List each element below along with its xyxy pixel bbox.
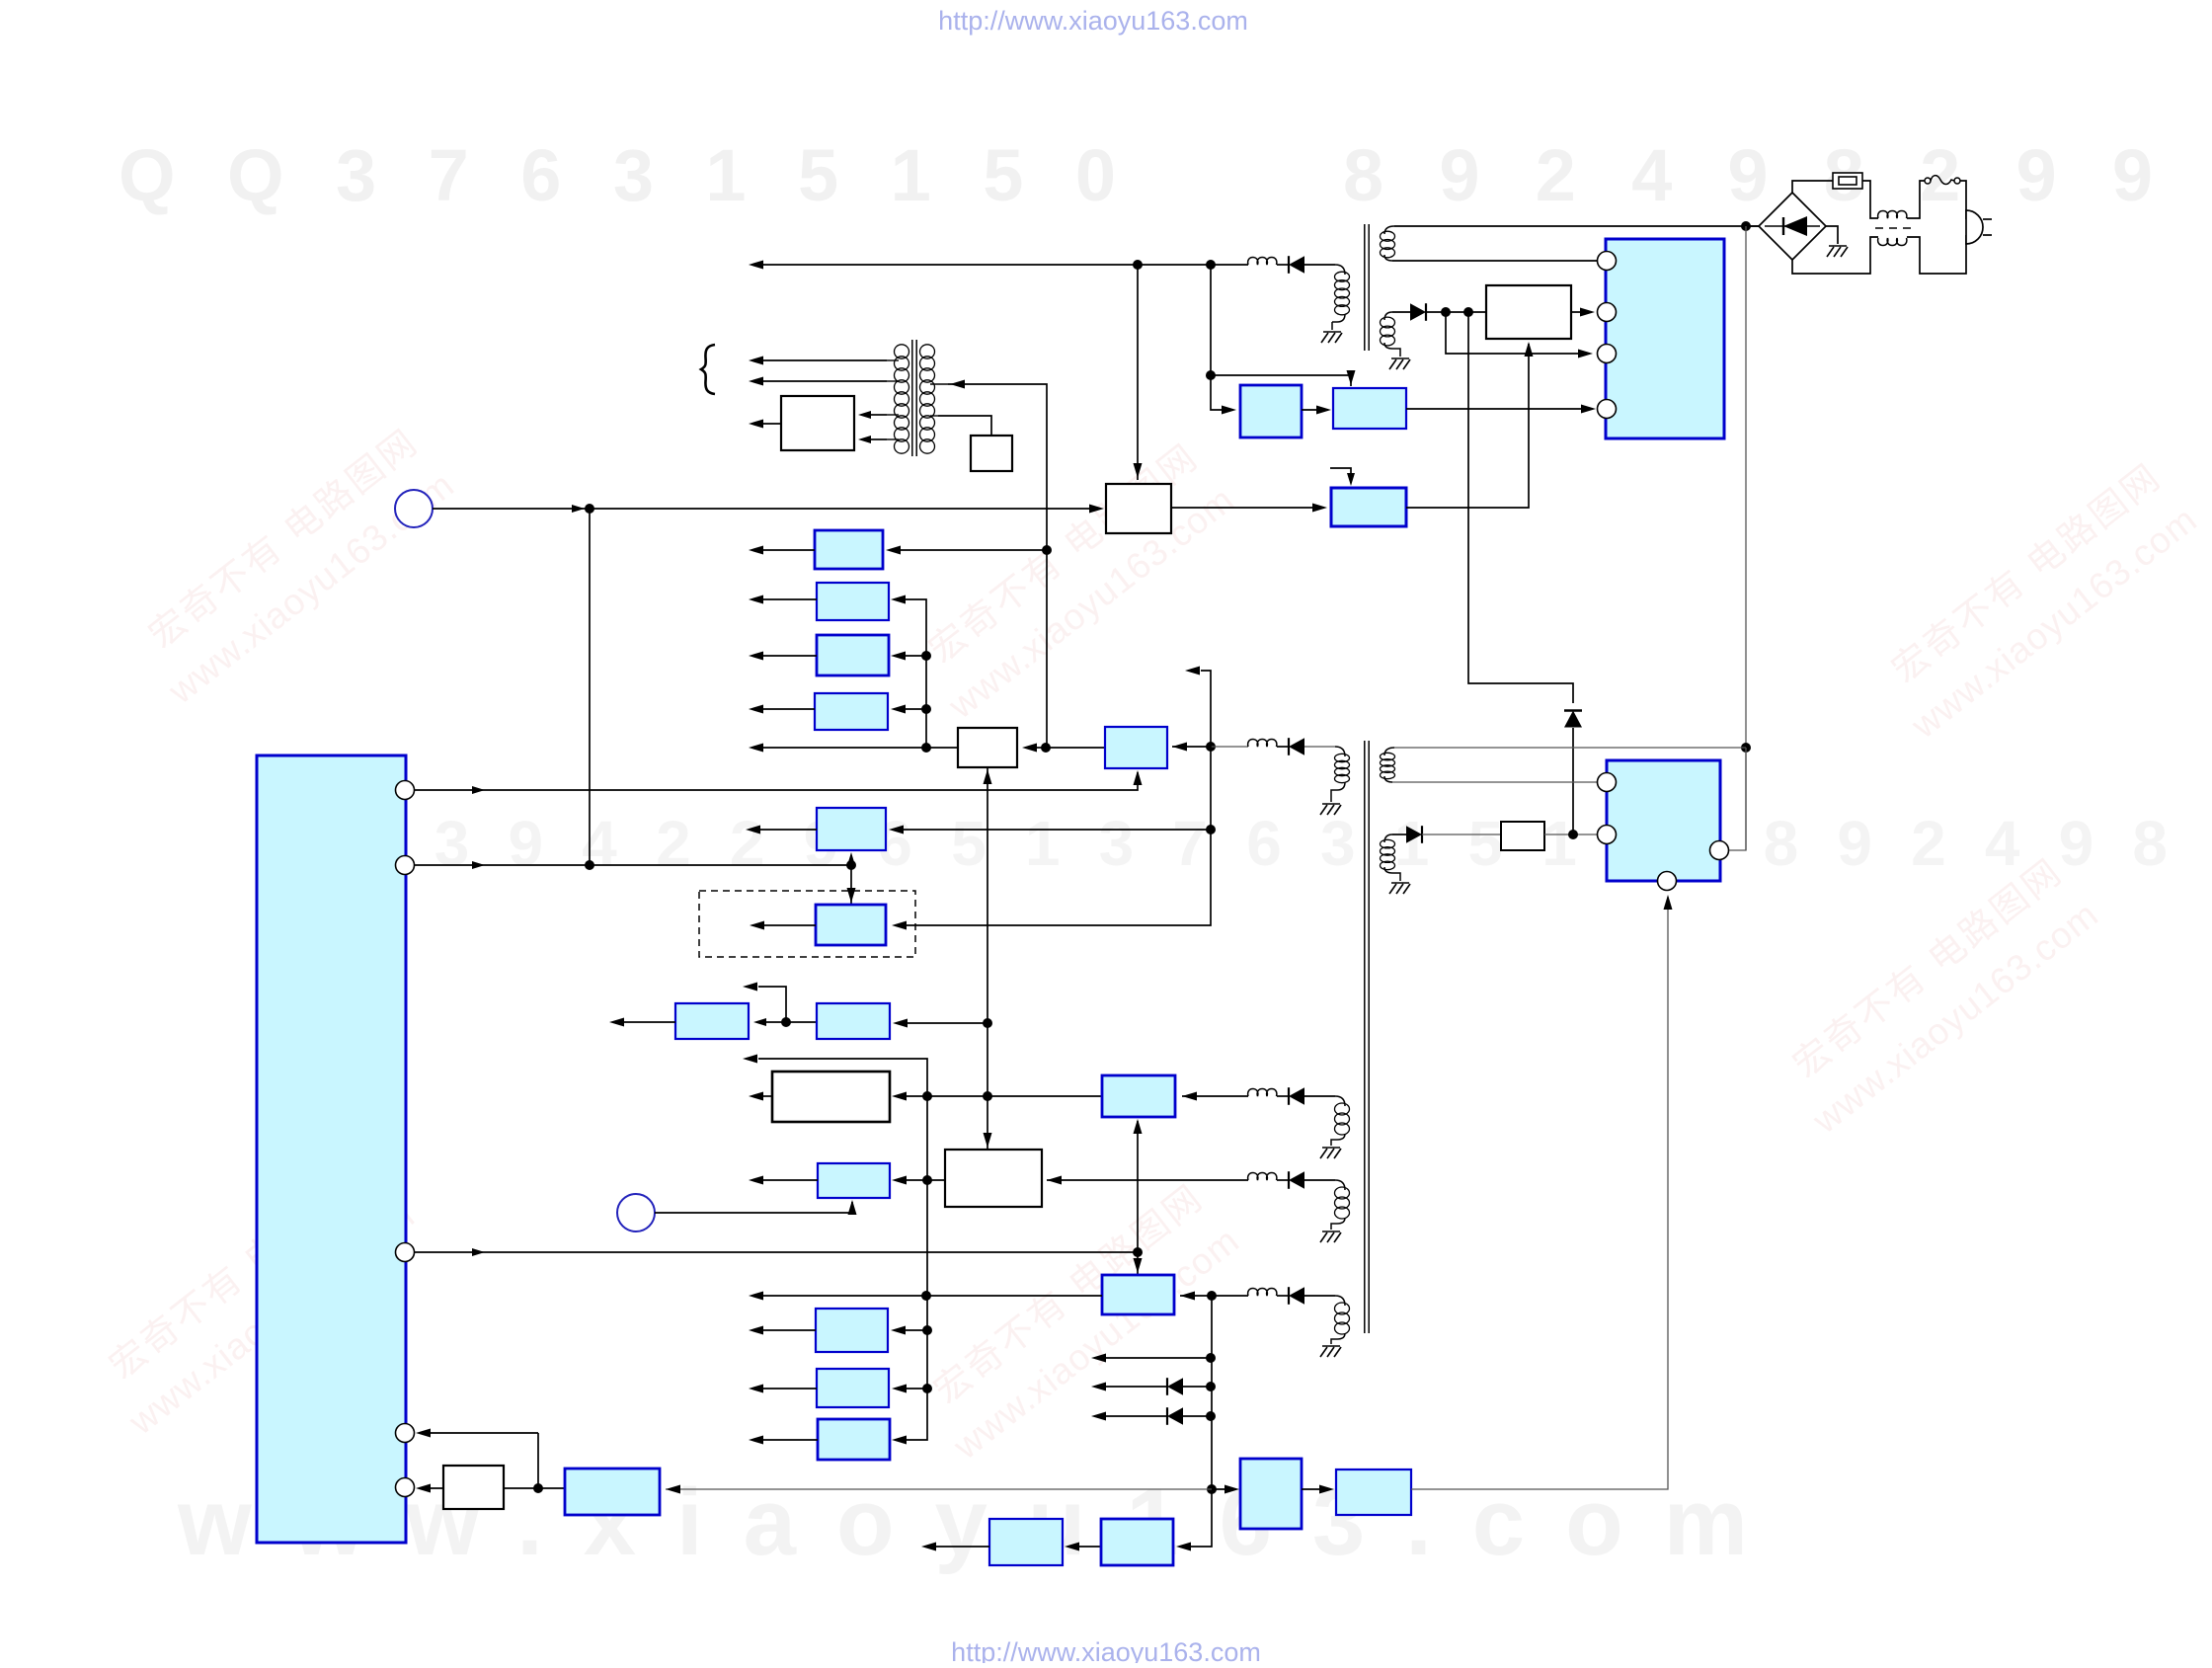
arrow stub tip (y999) — [743, 983, 757, 992]
arrow into B3 — [891, 652, 906, 661]
wire Wb out y514 — [1171, 507, 1324, 509]
wire B1 output left — [763, 549, 815, 551]
arrow into T3 coil tap — [950, 380, 965, 389]
T1 sec2 winding — [1381, 312, 1401, 357]
arrow on p1 wire — [472, 786, 485, 794]
arrow out F2 — [749, 1385, 763, 1393]
wire bridge to ground — [1826, 226, 1838, 244]
wire D4 to T2 — [1304, 746, 1335, 748]
arrow out B7 — [750, 921, 764, 930]
wire L2-D4 — [1277, 746, 1289, 748]
wire F3 out — [763, 1439, 818, 1441]
diode D9 row1404 — [1167, 1378, 1183, 1395]
wire B6 out — [760, 829, 817, 831]
arrow into D4blk — [1319, 1485, 1334, 1494]
wire row y757 left segment — [763, 747, 958, 749]
wire dot840 to B6 — [904, 829, 1211, 831]
standby reg BlockB — [1333, 388, 1406, 429]
arrow into F3 — [892, 1436, 907, 1445]
junction dot (939,1195) — [922, 1175, 932, 1185]
wire row A — [1182, 1095, 1335, 1097]
wire stub up to B6 — [850, 855, 852, 865]
arrow into W6 b — [858, 436, 871, 443]
arrow into B4 — [891, 705, 906, 714]
watermark bottom www — [177, 1469, 1748, 1575]
arrow into U1 p5 — [416, 1484, 431, 1493]
arrow out row268 — [749, 261, 763, 270]
wire row y268 — [763, 264, 1248, 266]
watermark digits row2 — [360, 808, 2168, 879]
T2 sec1 top corner — [1384, 748, 1394, 755]
arrow into F2 — [892, 1385, 907, 1393]
arrow into B6 — [889, 826, 904, 834]
audio out D3blk — [989, 1519, 1063, 1565]
wire U3 p3 to x1768 — [1729, 748, 1746, 850]
T1 primary wire-in corner — [1335, 265, 1345, 275]
fuse F1 — [1833, 173, 1862, 189]
arrow into B7 top — [847, 888, 856, 903]
arrow into reg B5 bottom — [1134, 770, 1143, 785]
wire choke bottom to plug — [1907, 235, 1966, 274]
wire row B — [1047, 1179, 1335, 1181]
wire x1152 to Wb top — [1137, 265, 1139, 480]
arrow into B7 — [892, 921, 907, 930]
junction dot (1226,756) — [1206, 742, 1216, 752]
transformer T3 left winding — [887, 345, 909, 453]
regulator B5 — [1105, 727, 1167, 768]
resistor box R1 — [1501, 822, 1544, 850]
U3 pin circle p2 — [1598, 826, 1617, 844]
watermark diagonal pink — [141, 421, 461, 712]
svg-text:http://www.xiaoyu163.com: http://www.xiaoyu163.com — [951, 1637, 1261, 1663]
arrow into BlockB top — [1347, 370, 1356, 385]
wire T1 top line y229 — [1394, 225, 1759, 227]
ground T2 sec5 — [1320, 1346, 1341, 1357]
wire row1110 — [907, 1095, 1102, 1097]
arrow into U2 pin3 — [1578, 350, 1593, 358]
arrow into Wb top — [1134, 463, 1143, 478]
arrow row1434 — [1091, 1412, 1106, 1421]
T1 sec1 top corner — [1384, 226, 1394, 234]
junction dot (1226,380) — [1206, 370, 1216, 380]
wire B3 input — [906, 655, 926, 657]
inductor L5 row C — [1248, 1289, 1277, 1297]
bridge rectifier BR1 diamond — [1759, 193, 1826, 260]
wire T3 out1 (y365) — [763, 359, 887, 361]
vertical reg D1blk — [1240, 1459, 1302, 1529]
wire BlockA-BlockB — [1302, 409, 1328, 411]
wire dot to E1 — [538, 1487, 565, 1489]
junction dot (939,1406) — [922, 1384, 932, 1393]
U1 pin circle p2 — [396, 856, 415, 875]
ground T2 sec3 — [1320, 1148, 1341, 1158]
wire T1 sec2 out — [1392, 311, 1410, 313]
diode D4 row756 — [1289, 738, 1304, 755]
junction dot (938,718) — [921, 704, 931, 714]
T2 sec2 winding — [1381, 834, 1401, 881]
regulator E1 — [565, 1469, 660, 1515]
U1 pin circle p3 — [396, 1243, 415, 1262]
wire T3 tap to W6 a — [871, 414, 887, 416]
diode D7 row B — [1289, 1171, 1304, 1189]
arrow into BlockB — [1316, 406, 1331, 415]
wire J2 to H1 bottom — [655, 1202, 852, 1213]
wire T3 right tap to W7 — [938, 416, 991, 436]
wire row1404 — [1106, 1386, 1211, 1388]
arrow on p2 wire — [472, 861, 485, 869]
regulator C1 — [1102, 1075, 1175, 1117]
watermark digits row1 left — [118, 134, 1116, 216]
wire D4blk to U3 bottom — [1411, 897, 1668, 1489]
junction dot (1152,1268) — [1133, 1247, 1143, 1257]
wire D5 to R1 — [1422, 834, 1501, 835]
U3 pin circle p1 — [1598, 773, 1617, 792]
wire D2blk to D3blk — [1079, 1546, 1101, 1548]
wire T2 sec1 lower to U3 pin1 — [1392, 781, 1598, 783]
inductor L1 row268 — [1248, 258, 1277, 266]
junction dot (1226,1434) — [1206, 1411, 1216, 1421]
photocoupler block8 — [1331, 488, 1406, 526]
wire L1-D1 — [1277, 264, 1289, 266]
wire stub down to B7 — [850, 865, 852, 905]
wire W3 to dot — [504, 1487, 538, 1489]
wire J1 to regulator input (y515) — [433, 508, 1099, 510]
audio amp D2blk — [1101, 1519, 1173, 1565]
wire F1 out — [763, 1329, 816, 1331]
wire G2 input — [765, 1021, 817, 1023]
wire into W2b right — [1037, 747, 1046, 749]
switch S1 — [1925, 176, 1960, 185]
wire to BlockB top — [1211, 375, 1351, 386]
AV switch box W5 — [945, 1150, 1042, 1207]
arrow out W4 — [749, 1092, 763, 1101]
connector J1 (blue circle) — [395, 490, 433, 527]
ground T2 sec2 — [1389, 883, 1410, 894]
wire row1195 W5 to H1 — [907, 1179, 945, 1181]
bridge inner line — [1765, 225, 1820, 227]
wire T2 sec1 upper to x1768 — [1394, 747, 1746, 749]
junction dot (1000,1110) — [983, 1091, 992, 1101]
wire G1 input — [908, 1022, 987, 1024]
arrow hook into block8 — [1347, 473, 1355, 486]
arrow into E1 — [666, 1485, 680, 1494]
junction dot (939,1347) — [922, 1325, 932, 1335]
watermark diagonal pink — [921, 436, 1241, 727]
arrow into W2b — [1022, 744, 1037, 753]
arrow into D1blk — [1224, 1485, 1239, 1494]
diode D1 row268 — [1289, 256, 1304, 274]
ground T2 sec4 — [1320, 1231, 1341, 1242]
wire F2 input — [907, 1388, 927, 1390]
transformer T1 core — [1365, 224, 1369, 351]
wire row C right part — [1212, 1295, 1335, 1297]
wire G2 out — [624, 1021, 675, 1023]
wire x1152 down to C2 — [1137, 1252, 1139, 1274]
wire vertical x1060 from T3 — [948, 384, 1047, 748]
arrow into C2 — [1180, 1292, 1195, 1301]
arrow into U2 pin4 — [1581, 405, 1596, 414]
arrow out B2 — [749, 596, 763, 604]
wire x1226 down to B6/B7 — [907, 747, 1211, 925]
arrow out D3blk — [921, 1543, 936, 1551]
regulator G2 — [675, 1003, 749, 1039]
wire B7 out — [764, 924, 816, 926]
wire B2 input from x938 — [906, 599, 926, 748]
arrow into G1 — [893, 1019, 908, 1028]
wire bridge left — [1746, 225, 1759, 227]
junction dot (1226,268) — [1206, 260, 1216, 270]
diode D3 vertical (to B+) — [1564, 711, 1582, 728]
wire D2 to W1 — [1426, 311, 1486, 313]
T2 sec4 winding (row B) — [1331, 1180, 1350, 1230]
wire choke top to switch — [1907, 181, 1925, 218]
junction dot (862,876) — [846, 860, 856, 870]
wire bridge top to fuse — [1792, 181, 1833, 193]
arrow on wire y515 — [572, 505, 585, 513]
regulator B4 — [815, 693, 888, 730]
junction dot (938,757) — [921, 743, 931, 753]
stub arrow x796 — [758, 987, 786, 1022]
wire x1227 lower — [1179, 1296, 1212, 1547]
regulator B2 — [817, 583, 889, 620]
wire U1 p4 (y1451) — [421, 1432, 538, 1434]
U3 pin circle p3 right — [1710, 841, 1729, 860]
watermark diagonal pink — [926, 1176, 1246, 1468]
wire dot to L2 — [1211, 746, 1248, 748]
svg-text:http://www.xiaoyu163.com: http://www.xiaoyu163.com — [938, 6, 1248, 36]
regulator B1 — [815, 530, 883, 569]
wire H1 out — [763, 1179, 818, 1181]
wire y1508 dot to D1blk — [1212, 1488, 1236, 1490]
diode D8 row C — [1289, 1287, 1304, 1305]
junction dot (1059,757) — [1041, 743, 1051, 753]
wire D1blk to D4blk — [1302, 1488, 1331, 1490]
wire U1 p1 (y800) — [415, 772, 1139, 790]
arrow out B3 — [749, 652, 763, 661]
junction dot (597,876) — [585, 860, 594, 870]
wire row1434 — [1106, 1415, 1211, 1417]
wire x1226 down — [1211, 265, 1233, 410]
wire W3 to U1 p5 — [421, 1487, 443, 1489]
regulator C2 — [1102, 1275, 1174, 1314]
arrow out B6 — [746, 826, 760, 834]
AC plug P1 — [1966, 210, 1992, 244]
wire row C to C2 — [1180, 1295, 1212, 1297]
wire B3 output left — [763, 655, 817, 657]
watermark diagonal pink — [1884, 455, 2204, 747]
wire B2 output left — [763, 598, 817, 600]
degauss box W6 — [781, 396, 854, 450]
wire x1152 up to C1 — [1137, 1121, 1139, 1252]
diode D2 sec2 — [1410, 303, 1426, 321]
T2 primary corner — [1335, 747, 1345, 756]
wire B4 input — [906, 708, 926, 710]
junction dot (1152,268) — [1133, 260, 1143, 270]
U2 pin circle p4 — [1598, 400, 1617, 419]
wire U1 p3 (y1268) — [415, 1251, 1139, 1253]
arrow out F1 — [749, 1326, 763, 1335]
wire W4 out — [763, 1095, 772, 1097]
arrow into B1 — [886, 546, 901, 555]
stub arrow feed x939 — [758, 1059, 927, 1440]
relay driver BlockA — [1240, 385, 1302, 437]
bottom long wire y1508 — [666, 1488, 1212, 1490]
arrow out row757 — [749, 744, 763, 753]
junction dot (1226,1404) — [1206, 1382, 1216, 1391]
arrow into W5 — [1047, 1176, 1062, 1185]
connector J2 (blue circle) — [617, 1194, 655, 1231]
U3 pin circle p4 bottom — [1658, 872, 1677, 891]
wire switch to plug — [1960, 181, 1966, 219]
wire W6 output — [763, 423, 781, 425]
wire x1768 bridge to T2/U3 — [1745, 226, 1747, 850]
arrow on p3 wire — [472, 1248, 485, 1256]
arrow out B1 — [749, 546, 763, 555]
wire corner x545 — [537, 1433, 539, 1488]
wire BlockB to U2 pin4 — [1406, 408, 1593, 410]
watermark url top — [938, 6, 1248, 36]
arrow up into W2b — [984, 769, 992, 784]
error amp box Wb — [1106, 484, 1171, 533]
IC U2 power control block — [1606, 239, 1724, 438]
U1 pin circle p5 — [396, 1478, 415, 1497]
wire F2 out — [763, 1388, 817, 1390]
arrow into D2blk — [1176, 1543, 1191, 1551]
regulator F2 — [817, 1369, 889, 1407]
arrow down into W5 — [984, 1133, 992, 1148]
junction dot (1226,840) — [1206, 825, 1216, 834]
T2 sec1 winding — [1381, 753, 1395, 782]
arrow into H1 — [892, 1176, 907, 1185]
wire x1487 long down — [1468, 312, 1573, 703]
wire B1 input — [901, 549, 1047, 551]
arrow into U2 pin2 — [1580, 308, 1595, 317]
inductor L2 row756 — [1248, 740, 1277, 748]
wire x1464 to U2 pin3 — [1446, 312, 1590, 354]
wire F1 input — [906, 1329, 927, 1331]
arrow into G2 — [753, 1018, 766, 1026]
wire block8 to W1 riser — [1406, 344, 1529, 508]
T2 primary winding — [1331, 754, 1350, 802]
transformer T3 core — [912, 340, 916, 456]
wire B4 output left — [763, 708, 815, 710]
wire D1 to T1 — [1304, 264, 1335, 266]
junction dot (1464,316) — [1441, 307, 1451, 317]
junction dot (1768,229) — [1741, 221, 1751, 231]
T1 primary winding — [1332, 272, 1350, 322]
T1 sec1 winding — [1381, 231, 1395, 261]
arrow into H1 bottom — [848, 1200, 857, 1215]
arrow into B2 — [891, 596, 906, 604]
T1 primary ground lead — [1331, 322, 1333, 330]
inductor L4 row B — [1248, 1173, 1277, 1181]
arrow into W1 bottom — [1525, 342, 1534, 357]
watermark url bottom — [951, 1637, 1261, 1667]
wire dot to B5 left — [1046, 747, 1105, 749]
posistor box W7 — [971, 436, 1012, 471]
regulator D4blk — [1336, 1469, 1411, 1515]
control box W1 — [1486, 285, 1571, 339]
junction dot (796,1035) — [781, 1017, 791, 1027]
arrow out W6 — [749, 420, 763, 429]
arrow out H1 — [749, 1176, 763, 1185]
arrow stub tip (y1072) — [743, 1055, 757, 1064]
regulator H1 — [818, 1163, 890, 1198]
U1 pin circle p4 — [396, 1424, 415, 1443]
arrow into U3 p4 — [1664, 895, 1673, 910]
junction dot (1226,1375) — [1206, 1353, 1216, 1363]
arrow into F1 — [891, 1326, 906, 1335]
diode D10 row1434 — [1167, 1407, 1183, 1425]
diode D5 sec2 — [1406, 826, 1422, 843]
wire U1 p2 (y876) — [415, 864, 852, 866]
watermark diagonal pink — [102, 1152, 422, 1443]
line filter choke top winding — [1878, 211, 1907, 219]
arrow into BlockA — [1222, 406, 1236, 415]
wire bridge bottom loop — [1792, 237, 1878, 274]
arrow into W4 — [892, 1092, 907, 1101]
wire into B5 right — [1172, 746, 1211, 748]
junction dot (1227,1508) — [1207, 1484, 1217, 1494]
wire vertical x597 — [589, 509, 591, 865]
transformer T2 core — [1365, 741, 1369, 1333]
bridge inner diode — [1783, 216, 1807, 236]
U1 pin circle p1 — [396, 781, 415, 800]
junction dot (1768,757) — [1741, 743, 1751, 753]
arrow out2 — [749, 377, 763, 386]
junction dot (1000,1036) — [983, 1018, 992, 1028]
junction dot (939,1110) — [922, 1091, 932, 1101]
wire W1 out — [1571, 311, 1592, 313]
wire D3blk out — [936, 1546, 989, 1548]
wire W2b bottom vertical x1000 — [987, 767, 988, 1150]
hook wire over block8 — [1330, 468, 1351, 483]
wire R1 to U3 pin2 — [1544, 834, 1598, 835]
svg-text:892498299: 892498299 — [1343, 134, 2153, 216]
choke dashes — [1875, 227, 1914, 229]
regulator F3 — [818, 1419, 890, 1460]
arrow into B6 bottom — [847, 852, 856, 867]
arrow out F3 — [749, 1436, 763, 1445]
regulator B7 (in dashed box) — [816, 905, 886, 945]
T2 sec3 winding (row A) — [1331, 1096, 1350, 1146]
filter box W2b — [958, 728, 1017, 767]
arrow out B4 — [749, 705, 763, 714]
junction dot (1227,1312) — [1207, 1291, 1217, 1301]
arrow into block8 — [1312, 504, 1327, 513]
ground T2 primary — [1320, 804, 1341, 815]
junction dot (1487,316) — [1463, 307, 1473, 317]
wire D3 down to dot — [1572, 728, 1574, 834]
arrow out rowC — [749, 1292, 763, 1301]
junction dot (1060,557) — [1042, 545, 1052, 555]
U2 pin circle p1 — [1598, 252, 1617, 271]
wire C2 left out — [763, 1295, 1102, 1297]
arrow out G2 — [609, 1018, 624, 1027]
reset box W3 — [443, 1466, 504, 1509]
junction dot (1593,845) — [1568, 830, 1578, 839]
T2 sec5 winding (row C) — [1331, 1296, 1350, 1344]
arrow into reg5 block — [1089, 505, 1104, 514]
U2 pin circle p3 — [1598, 345, 1617, 363]
line filter choke bottom winding — [1878, 238, 1907, 246]
regulator B6 — [817, 808, 886, 850]
regulator B3 — [817, 635, 889, 675]
arrow into C2 top — [1134, 1258, 1143, 1273]
wire T2 sec2 out — [1392, 834, 1406, 835]
ground bridge — [1827, 246, 1848, 257]
IC U3 audio/power block — [1607, 760, 1720, 881]
